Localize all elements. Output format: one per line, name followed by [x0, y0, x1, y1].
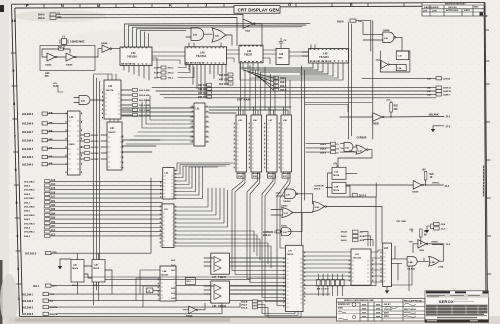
- svg-text:2H3-8: 2H3-8: [337, 20, 344, 23]
- svg-text:JC: JC: [485, 15, 488, 18]
- svg-text:L4B: L4B: [409, 261, 414, 264]
- svg-text:74S0: 74S0: [278, 57, 284, 60]
- node E16 box under L57: [268, 174, 276, 179]
- node 2H2 2H8-1 TCA stub: [22, 293, 54, 297]
- node L58 CHR-B stub: [427, 77, 450, 81]
- node L58 2H4P-B stub: [427, 89, 451, 93]
- svg-text:74S74: 74S74: [333, 174, 340, 177]
- svg-text:44B: 44B: [49, 138, 53, 141]
- svg-text:74S157: 74S157: [108, 131, 116, 134]
- svg-text:2H3-3: 2H3-3: [168, 73, 175, 75]
- svg-text:470: 470: [45, 75, 50, 78]
- power +5V FF L1A: [333, 164, 338, 168]
- node right stub column DSP: [133, 88, 150, 117]
- driver box L48: [211, 281, 230, 308]
- inverter L33: [381, 61, 389, 69]
- svg-text:L5A: L5A: [384, 247, 389, 250]
- svg-text:2H2,2H8-7: 2H2,2H8-7: [22, 132, 34, 134]
- node ZCD stub cluster: [154, 66, 174, 80]
- wire video out: [409, 230, 444, 253]
- svg-text:J7-2: J7-2: [446, 117, 451, 119]
- svg-text:TCA: TCA: [50, 293, 55, 296]
- wire L40 fan extensions: [240, 63, 343, 80]
- revision table top right: [422, 3, 484, 16]
- power +5 box: [147, 288, 161, 293]
- IC L57 RAM: [267, 115, 278, 172]
- svg-text:2H7,2H2-3: 2H7,2H2-3: [25, 253, 37, 255]
- IC L41 74S257 tall: [68, 111, 81, 175]
- svg-text:2H CK2: 2H CK2: [91, 141, 100, 143]
- inverter A14b: [66, 53, 76, 67]
- wire L43 right stubs: [121, 90, 132, 115]
- wire FF drops bottom: [78, 270, 286, 307]
- svg-text:XEROX CORPORATION USE: XEROX CORPORATION USE: [344, 299, 374, 302]
- wire 2H4 stub lines: [364, 232, 373, 246]
- svg-text:2H CK5: 2H CK5: [91, 159, 100, 161]
- inverter L49 74S04: [186, 306, 198, 318]
- pin number dots tall ICs: [66, 46, 381, 308]
- node CURSOR label: [357, 138, 367, 140]
- wire counter top pins: [125, 24, 149, 47]
- power +5V R24: [409, 229, 429, 237]
- IC L91: [351, 249, 371, 285]
- svg-text:41B: 41B: [49, 112, 53, 115]
- svg-text:+5V: +5V: [386, 100, 390, 102]
- node 103-2 stub column: [274, 76, 287, 92]
- svg-text:74S38: 74S38: [412, 191, 419, 194]
- svg-text:7404: 7404: [245, 30, 251, 33]
- svg-text:+5V: +5V: [422, 169, 427, 171]
- svg-text:ENG: ENG: [384, 313, 389, 315]
- wire L36 inputs: [363, 22, 402, 51]
- svg-text:CRT GND: CRT GND: [396, 221, 406, 223]
- svg-text:CRT RAM: CRT RAM: [237, 98, 251, 102]
- svg-text:74S74: 74S74: [333, 189, 340, 192]
- svg-text:J4-1: J4-1: [171, 269, 176, 272]
- svg-text:40B: 40B: [49, 162, 53, 165]
- svg-text:L50: L50: [131, 51, 136, 55]
- wire inverter out: [255, 24, 262, 45]
- svg-text:10 12 13 1 3 4 5 6 9 7: 10 12 13 1 3 4 5 6 9 7: [310, 60, 332, 63]
- wire inter IC links top: [152, 50, 309, 64]
- svg-text:DATE: DATE: [464, 9, 470, 12]
- svg-text:41A: 41A: [49, 147, 53, 150]
- svg-text:74S32: 74S32: [281, 204, 288, 207]
- svg-text:LTR: LTR: [423, 10, 428, 12]
- svg-text:CRT DISPLAY GEN: CRT DISPLAY GEN: [238, 7, 280, 12]
- AND gate A22: [79, 96, 90, 105]
- AND gate L4B: [407, 257, 417, 271]
- svg-text:VSYNC: VSYNC: [432, 183, 440, 185]
- node CURSOR 2H3-8 label: [314, 185, 324, 190]
- IC L42: [107, 122, 122, 170]
- OR gate L18 cursor: [356, 145, 368, 154]
- node CRT GND: [396, 221, 406, 223]
- AND gate L20 74S260: [283, 189, 298, 203]
- wire L40 pins: [240, 45, 343, 80]
- ground arrow FF: [58, 259, 71, 270]
- svg-text:2H3-8: 2H3-8: [314, 189, 321, 191]
- wire gate links: [186, 34, 232, 45]
- svg-text:74S244: 74S244: [218, 276, 227, 279]
- buffer L17b: [412, 181, 423, 194]
- svg-text:2H CK3: 2H CK3: [91, 147, 100, 149]
- IC L43: [104, 80, 121, 119]
- svg-text:2H2,2H8-1: 2H2,2H8-1: [22, 294, 34, 296]
- svg-text:K: K: [169, 3, 172, 8]
- svg-text:0.88432 MHZ: 0.88432 MHZ: [70, 41, 85, 44]
- svg-text:REVISION HISTORY: REVISION HISTORY: [445, 4, 466, 6]
- node driver input labels: [171, 259, 176, 300]
- wire L4B to L6B: [418, 245, 444, 262]
- svg-text:+5V: +5V: [53, 83, 57, 85]
- svg-text:CHG NO: CHG NO: [448, 7, 457, 9]
- inverter A14a: [45, 53, 57, 67]
- svg-text:2H2,2H8-7: 2H2,2H8-7: [24, 198, 35, 200]
- svg-text:74S04: 74S04: [101, 42, 108, 45]
- OR gate L6B: [429, 256, 444, 268]
- node J2-4: [432, 183, 450, 188]
- svg-text:74S04: 74S04: [45, 64, 52, 67]
- power +5V A22 area: [53, 83, 63, 92]
- wire nested routing under L76: [258, 302, 302, 318]
- crystal Y1: [60, 36, 85, 45]
- zone ticks right: [485, 30, 492, 274]
- node J4-1 box: [185, 278, 195, 285]
- svg-text:2H3P-A: 2H3P-A: [443, 87, 451, 90]
- wire L43 L42 links: [94, 74, 119, 122]
- svg-text:2H2,2H8-8: 2H2,2H8-8: [22, 124, 34, 126]
- node L58 2H3P-A stub: [427, 86, 451, 90]
- driver box L47: [211, 253, 230, 279]
- svg-text:J4-1: J4-1: [186, 280, 191, 283]
- svg-text:2H CK4: 2H CK4: [91, 152, 100, 155]
- wire L52 staircase up: [174, 166, 203, 199]
- node 2H4-B stub rows: [341, 230, 365, 242]
- svg-text:J4-3: J4-3: [171, 264, 176, 267]
- svg-text:J7-3: J7-3: [446, 126, 451, 128]
- svg-text:2H CK1: 2H CK1: [91, 135, 100, 137]
- IC L40 74LS161: [309, 49, 349, 64]
- svg-text:2H3-1: 2H3-1: [168, 68, 175, 70]
- svg-text:J2-4: J2-4: [445, 185, 450, 188]
- node 2H4-8 input stub: [38, 16, 62, 20]
- buffer L17c video: [418, 240, 428, 252]
- svg-text:REV: REV: [474, 7, 479, 9]
- svg-text:+5V: +5V: [409, 230, 414, 232]
- svg-text:CURSOR: CURSOR: [314, 185, 324, 187]
- node 2H2 2H8-3 stub: [22, 162, 53, 166]
- title block details: [338, 303, 417, 320]
- svg-text:2H4-8: 2H4-8: [38, 17, 45, 20]
- svg-text:74S244: 74S244: [218, 305, 227, 308]
- svg-text:41A CKE: 41A CKE: [219, 83, 229, 86]
- zone ticks top: [44, 3, 440, 8]
- wire L42 to center: [122, 108, 194, 152]
- wire stair top bundle: [177, 163, 233, 167]
- svg-text:WA: WA: [50, 300, 54, 303]
- node J7-3: [446, 126, 451, 128]
- svg-text:2H3-10: 2H3-10: [263, 235, 271, 237]
- svg-text:LS04: LS04: [438, 266, 444, 269]
- flipflop L46 74S74: [92, 260, 105, 287]
- power +5V R22: [386, 100, 399, 113]
- OR gate A21: [212, 28, 226, 42]
- inverter B10 74S04: [101, 42, 112, 53]
- node 2H4-6 input stub: [38, 13, 61, 17]
- wire zcd links: [152, 58, 194, 78]
- node 2H P-2 stub: [352, 194, 367, 198]
- svg-text:CHK BY: CHK BY: [384, 309, 393, 311]
- svg-text:2H2,2H8-6: 2H2,2H8-6: [24, 207, 35, 209]
- node E17 box under L58: [282, 174, 290, 179]
- svg-text:2H2-9: 2H2-9: [241, 304, 248, 306]
- svg-text:E: E: [350, 2, 353, 7]
- node drawing number vertical right border: [484, 15, 488, 196]
- svg-text:2H4-6: 2H4-6: [341, 235, 348, 238]
- wire vertical rails left: [94, 75, 100, 305]
- svg-text:103-1: 103-1: [168, 78, 174, 80]
- wire driver links: [204, 258, 286, 294]
- node 2H3-8 stub: [337, 19, 362, 23]
- wire L5A to gates: [391, 246, 407, 280]
- IC L61 74S257: [239, 45, 263, 63]
- svg-text:40A CKC: 40A CKC: [219, 74, 229, 77]
- svg-text:2H3-2 41B: 2H3-2 41B: [139, 89, 150, 92]
- svg-text:MODEL NO: MODEL NO: [338, 304, 350, 306]
- IC L52: [163, 168, 174, 199]
- svg-text:L1B: L1B: [334, 187, 339, 189]
- svg-text:J2-B: J2-B: [441, 224, 446, 226]
- ground J2 bracket: [425, 224, 434, 233]
- wire L91 to L5A: [371, 250, 383, 282]
- svg-text:ACC: ACC: [52, 285, 57, 288]
- IC L60 74LS74A: [185, 47, 227, 65]
- svg-text:DATE ISSUED: DATE ISSUED: [424, 6, 439, 9]
- svg-text:WDATA: WDATA: [50, 306, 58, 309]
- wire driver L17b out: [346, 180, 444, 186]
- svg-text:2H4-9: 2H4-9: [24, 185, 31, 188]
- wire stub rows to L41: [48, 114, 68, 165]
- wire A22: [74, 98, 104, 103]
- svg-text:J4-4: J4-4: [171, 292, 176, 295]
- AND gate L30: [281, 225, 291, 236]
- IC L53: [162, 204, 174, 248]
- svg-text:74LS1: 74LS1: [287, 253, 294, 256]
- node 2H2 2H8-7 stub: [22, 130, 53, 134]
- IC L55 RAM: [236, 115, 247, 172]
- svg-text:74LS161: 74LS161: [319, 56, 329, 59]
- wire address bus to rams: [209, 107, 291, 115]
- wire osc internal: [42, 45, 102, 58]
- buffer L17a: [372, 113, 384, 126]
- node 2H2 2H8-6 stub: [22, 138, 53, 142]
- IC L34: [396, 65, 406, 71]
- svg-text:XEROX: XEROX: [439, 299, 455, 304]
- node CRT RAM: [237, 98, 251, 102]
- node 2H4-1 ACC stub: [33, 284, 57, 288]
- IC L51 address mux: [190, 103, 209, 146]
- svg-text:74S74: 74S74: [72, 267, 79, 270]
- IC L35: [396, 51, 408, 60]
- flipflop L1A: [332, 167, 346, 179]
- wire bus rows to L52 L53: [50, 181, 163, 236]
- svg-text:2H4P-T: 2H4P-T: [443, 93, 451, 96]
- wire FF loop: [326, 173, 376, 197]
- svg-text:40B CKD: 40B CKD: [219, 79, 229, 82]
- svg-text:74S260: 74S260: [283, 200, 291, 203]
- node E15 box under L56: [252, 174, 260, 179]
- IC L5A tall narrow: [383, 243, 392, 287]
- wire L53 staircase right: [174, 188, 271, 268]
- svg-text:L61: L61: [247, 49, 252, 53]
- resistor R37: [58, 47, 64, 51]
- flipflop L1B: [332, 182, 346, 193]
- svg-text:P: P: [26, 3, 29, 8]
- wire gate outputs: [271, 193, 382, 243]
- svg-text:2H2,2H8-4: 2H2,2H8-4: [22, 156, 34, 159]
- wire cursor gates: [338, 147, 372, 167]
- wire inverter L49: [183, 303, 205, 310]
- svg-text:VIDEO: VIDEO: [431, 242, 438, 244]
- svg-text:L40: L40: [323, 52, 328, 56]
- svg-text:74S11: 74S11: [281, 225, 288, 228]
- IC L50 counter 74S163A: [120, 47, 152, 66]
- inverter 7404 top: [243, 19, 255, 33]
- svg-text:L60: L60: [200, 51, 205, 55]
- svg-text:CURSOR 1: CURSOR 1: [263, 232, 276, 234]
- wire ram bottom fan: [232, 172, 290, 250]
- wire L41 right to mid stubs: [80, 135, 107, 159]
- wire vertical rails center: [302, 22, 352, 245]
- svg-text:WDATB: WDATB: [50, 313, 58, 316]
- AND gate L36: [383, 29, 396, 43]
- IC L56 RAM: [251, 115, 262, 172]
- wire data drops to rams: [241, 63, 291, 115]
- svg-text:2H7,2H8-8: 2H7,2H8-8: [22, 314, 34, 316]
- svg-text:2H2,2H8-0: 2H2,2H8-0: [22, 301, 34, 303]
- svg-text:2H2,2H8-4: 2H2,2H8-4: [24, 222, 35, 225]
- svg-text:2H2,2H8-6: 2H2,2H8-6: [22, 140, 34, 142]
- svg-text:74S174: 74S174: [106, 89, 114, 92]
- IC L62: [276, 48, 289, 64]
- OR gate L24: [313, 201, 327, 211]
- wire 2H3-8 drop: [356, 21, 373, 139]
- node 2H2-B stub rows: [241, 300, 258, 310]
- wire resistor pack stubs: [318, 274, 342, 280]
- svg-text:2H3-7: 2H3-7: [280, 82, 287, 84]
- node bus stub rows left: [24, 179, 56, 238]
- wire drops into title block: [318, 286, 342, 296]
- svg-text:N: N: [61, 3, 64, 8]
- svg-text:NEXT ASSY: NEXT ASSY: [404, 308, 417, 311]
- node HBLANK J7-2: [429, 114, 451, 119]
- title box: [234, 6, 280, 14]
- svg-text:2H2-B: 2H2-B: [241, 301, 248, 303]
- AND gate L19: [344, 143, 353, 152]
- wire loop right cluster: [376, 51, 410, 72]
- svg-text:ACA: ACA: [360, 235, 365, 238]
- wire top pair: [57, 14, 244, 45]
- svg-text:DR BY: DR BY: [384, 304, 391, 306]
- IC L76 tall: [286, 245, 303, 311]
- svg-text:CHK: CHK: [432, 10, 437, 12]
- svg-text:G: G: [288, 2, 291, 7]
- node CURSOR 1 stub: [263, 230, 281, 237]
- svg-text:MFG: MFG: [384, 316, 389, 318]
- svg-text:J3-2: J3-2: [446, 244, 451, 246]
- svg-text:R22: R22: [394, 106, 399, 108]
- node resistor pack row: [317, 280, 345, 291]
- svg-text:74S38: 74S38: [372, 123, 379, 126]
- svg-text:40A: 40A: [49, 130, 53, 133]
- svg-text:74S04: 74S04: [186, 315, 193, 318]
- svg-text:APPROVED: APPROVED: [446, 9, 459, 12]
- svg-text:2H4-B: 2H4-B: [341, 231, 348, 234]
- svg-text:74S08: 74S08: [383, 29, 390, 32]
- node E14 box under L55: [237, 174, 245, 179]
- svg-text:74LS08: 74LS08: [407, 267, 415, 270]
- svg-text:2H2,2H8-5: 2H2,2H8-5: [22, 149, 34, 151]
- svg-text:2H4-7: 2H4-7: [24, 201, 31, 204]
- svg-text:2H2,2H8-3: 2H2,2H8-3: [22, 164, 34, 166]
- svg-text:J2-D: J2-D: [441, 229, 446, 231]
- AND gate A20: [191, 28, 204, 40]
- zone numbers left: [12, 18, 21, 301]
- node 40A-CKC stub column: [219, 73, 233, 86]
- wire counter bottom pins: [124, 66, 149, 81]
- svg-text:2H2,2H8-9: 2H2,2H8-9: [22, 114, 34, 116]
- svg-text:2H4-3: 2H4-3: [24, 235, 31, 238]
- svg-text:2H2-A: 2H2-A: [241, 306, 248, 309]
- capacitor C4: [279, 38, 287, 48]
- svg-text:74S163A: 74S163A: [127, 56, 137, 59]
- wire crt stub lines: [305, 103, 372, 153]
- ground J7-3: [431, 126, 444, 132]
- wire L61 pins: [243, 63, 273, 90]
- ground L5A: [385, 287, 389, 294]
- svg-text:74S04: 74S04: [66, 64, 73, 67]
- svg-text:J4-5: J4-5: [171, 259, 176, 262]
- svg-text:2H2,2H8-5: 2H2,2H8-5: [24, 215, 35, 217]
- svg-text:2H2,2H8-8: 2H2,2H8-8: [24, 190, 35, 192]
- svg-text:2H4-6: 2H4-6: [24, 210, 31, 213]
- svg-text:L1A: L1A: [334, 171, 339, 174]
- node mid stub column: [85, 133, 100, 161]
- wire horizontals into L51: [126, 96, 194, 144]
- wire drops below L4B: [391, 266, 412, 291]
- svg-text:74S257: 74S257: [244, 54, 253, 57]
- OR gate L23: [281, 204, 293, 217]
- svg-text:2H4-5: 2H4-5: [24, 218, 31, 221]
- svg-text:J4-2: J4-2: [171, 297, 176, 300]
- svg-text:2H2,2H8-3: 2H2,2H8-3: [24, 232, 35, 234]
- svg-text:7438: 7438: [419, 249, 425, 252]
- svg-text:2H4-1: 2H4-1: [33, 285, 40, 288]
- zone ticks left: [11, 53, 21, 284]
- wire 2H7 line: [51, 178, 151, 260]
- wire bottom label lines: [49, 197, 377, 314]
- wire FF links: [78, 266, 113, 288]
- svg-text:43B: 43B: [49, 121, 53, 124]
- svg-text:2H3-5 43B: 2H3-5 43B: [139, 99, 150, 102]
- node 2H2 2H8-9 stub: [22, 112, 53, 116]
- svg-text:2H2,2H8-9: 2H2,2H8-9: [24, 181, 35, 183]
- node J2-D stub: [434, 227, 446, 231]
- flipflop L45 74S74: [71, 260, 84, 287]
- svg-text:J4-6: J4-6: [171, 287, 176, 290]
- svg-text:A B C D E F: A B C D E F: [317, 288, 330, 291]
